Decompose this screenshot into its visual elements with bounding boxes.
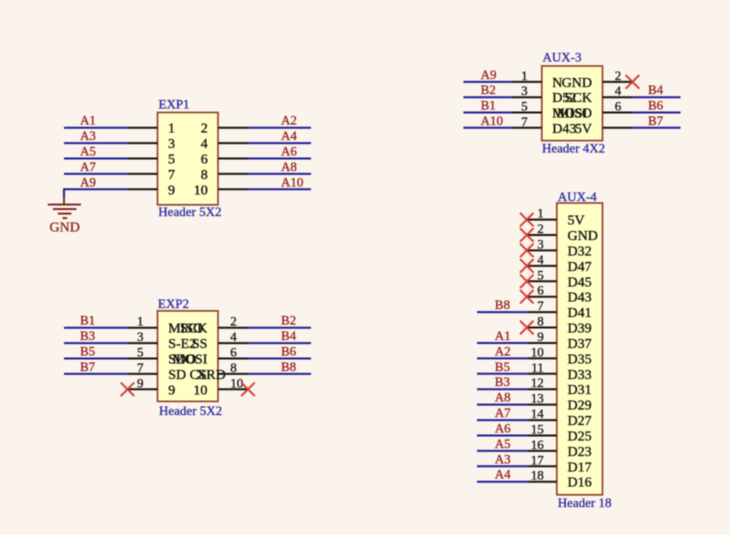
- net label A7: [495, 405, 511, 420]
- svg-text:D31: D31: [568, 383, 592, 398]
- AUX-4 pin 4: [527, 260, 592, 275]
- svg-text:A7: A7: [495, 405, 511, 420]
- svg-text:3: 3: [168, 137, 175, 152]
- wire net A2: [477, 357, 527, 359]
- svg-text:A6: A6: [495, 421, 511, 436]
- wire net B6: [248, 358, 311, 360]
- svg-text:B5: B5: [80, 344, 95, 359]
- svg-text:A5: A5: [495, 436, 511, 451]
- EXP1 pin 4: [201, 137, 248, 152]
- wire net B4: [633, 96, 681, 98]
- no-ERC marker AUX-4 pin 6: [520, 290, 534, 304]
- EXP2 pin 9 number: [137, 375, 144, 390]
- svg-text:MOSI: MOSI: [172, 353, 207, 368]
- svg-text:D39: D39: [568, 322, 592, 337]
- svg-text:3: 3: [137, 329, 144, 344]
- AUX-4 pin 10 number: [531, 344, 544, 359]
- svg-text:1: 1: [521, 68, 528, 83]
- svg-text:A9: A9: [80, 174, 96, 189]
- svg-text:6: 6: [230, 345, 237, 360]
- svg-text:10: 10: [194, 183, 208, 198]
- net label B6: [648, 98, 664, 113]
- wire net A7: [64, 173, 128, 175]
- AUX-4 pin 13: [527, 399, 592, 414]
- net label B4: [281, 328, 297, 343]
- net label A3: [80, 128, 96, 143]
- svg-text:A8: A8: [281, 159, 297, 174]
- AUX-3 pin 7 number: [521, 114, 528, 129]
- wire net B4: [248, 342, 311, 344]
- svg-text:AUX-3: AUX-3: [543, 50, 582, 65]
- wire net B5: [477, 373, 527, 375]
- wire net B6: [633, 112, 681, 114]
- svg-text:AUX-4: AUX-4: [558, 189, 597, 204]
- no-ERC marker EXP2 pin 9: [121, 383, 135, 397]
- no-ERC marker AUX-4 pin 4: [520, 259, 534, 273]
- svg-text:5: 5: [168, 153, 175, 168]
- svg-text:B8: B8: [281, 359, 296, 374]
- svg-text:D17: D17: [568, 460, 592, 475]
- svg-text:6: 6: [201, 153, 208, 168]
- wire net A9 to GND: [64, 188, 128, 198]
- GND net label: [50, 221, 80, 236]
- svg-text:1: 1: [137, 314, 144, 329]
- svg-text:Header 5X2: Header 5X2: [159, 403, 222, 418]
- svg-text:A10: A10: [481, 113, 503, 128]
- AUX-4 pin 12 number: [531, 375, 544, 390]
- svg-text:Header 5X2: Header 5X2: [158, 204, 221, 219]
- svg-text:A6: A6: [281, 144, 297, 159]
- AUX-4 pin 8 number: [537, 314, 544, 329]
- EXP1 pin 9: [128, 183, 176, 198]
- AUX-4 pin 14 number: [531, 406, 545, 421]
- wire net A5: [64, 158, 128, 160]
- AUX-3 pin 5 number: [521, 99, 528, 114]
- AUX-3 pin 6 number: [615, 99, 622, 114]
- AUX-4 pin 16: [527, 445, 592, 460]
- EXP2 pin 4 number: [230, 329, 237, 344]
- EXP2 pin 10 number: [230, 375, 243, 390]
- net label B8: [495, 297, 510, 312]
- svg-text:SS: SS: [192, 337, 208, 352]
- AUX-4 pin 2 number: [537, 221, 544, 236]
- AUX-3 pin 2 number: [615, 68, 622, 83]
- AUX-3 pin 1 number: [521, 68, 528, 83]
- net label B7: [80, 359, 96, 374]
- net label A8: [495, 390, 511, 405]
- wire net A1: [477, 342, 527, 344]
- EXP2 pin 5 number: [137, 345, 144, 360]
- AUX-4 pin 18 number: [531, 468, 544, 483]
- svg-text:B4: B4: [281, 328, 297, 343]
- AUX-4 pin 7 number: [537, 298, 544, 313]
- EXP2 pin 4: [192, 337, 248, 352]
- wire net B8: [248, 373, 311, 375]
- no-ERC marker EXP2 pin 10: [241, 383, 255, 397]
- EXP2 pin 8: [218, 373, 248, 375]
- AUX-4 pin 14: [527, 414, 592, 429]
- EXP2 pin 2 number: [230, 314, 237, 329]
- AUX-4 pin 11 number: [531, 360, 544, 375]
- net label A2: [281, 113, 297, 128]
- svg-text:3: 3: [521, 83, 528, 98]
- svg-text:A1: A1: [495, 328, 511, 343]
- AUX-4 pin 5 number: [537, 267, 544, 282]
- net label B2: [481, 82, 496, 97]
- EXP1 pin 2: [201, 122, 248, 137]
- wire net A4: [248, 142, 311, 144]
- svg-text:A2: A2: [281, 113, 297, 128]
- power port GND symbol: [48, 197, 81, 218]
- svg-text:GND: GND: [568, 229, 598, 244]
- EXP2 pin 1: [128, 322, 204, 337]
- value label Header 4X2: [542, 140, 605, 155]
- svg-text:D47: D47: [568, 260, 592, 275]
- svg-text:B1: B1: [481, 98, 496, 113]
- net label A7: [80, 159, 96, 174]
- svg-text:B3: B3: [80, 328, 95, 343]
- svg-text:13: 13: [531, 391, 544, 406]
- AUX-4 pin 6 number: [537, 283, 544, 298]
- svg-text:3: 3: [537, 236, 544, 251]
- svg-text:5V: 5V: [575, 122, 592, 137]
- svg-text:6: 6: [615, 99, 622, 114]
- EXP2 pin 10: [193, 383, 248, 398]
- net label B2: [281, 313, 296, 328]
- AUX-4 pin 3 number: [537, 236, 544, 251]
- svg-text:11: 11: [531, 360, 544, 375]
- svg-text:XRD: XRD: [196, 368, 226, 383]
- wire net B2: [248, 327, 311, 329]
- svg-text:SCK: SCK: [565, 91, 592, 106]
- svg-text:7: 7: [521, 114, 528, 129]
- svg-text:6: 6: [537, 283, 544, 298]
- net label B7: [648, 113, 664, 128]
- svg-text:A5: A5: [80, 144, 96, 159]
- AUX-3 pin 5: [512, 107, 588, 122]
- net label A1: [80, 113, 96, 128]
- svg-text:1: 1: [537, 206, 544, 221]
- EXP2 pin 7: [128, 368, 207, 383]
- connector AUX-3 body: [542, 66, 603, 141]
- no-ERC marker AUX-4 pin 5: [520, 275, 534, 289]
- svg-text:8: 8: [201, 168, 208, 183]
- wire net B2: [463, 96, 511, 98]
- AUX-4 pin 12: [527, 383, 592, 398]
- wire net A8: [477, 404, 527, 406]
- EXP2 pin 3 number: [137, 329, 144, 344]
- AUX-3 pin 3 number: [521, 83, 528, 98]
- svg-text:B6: B6: [648, 98, 664, 113]
- svg-text:B1: B1: [80, 313, 95, 328]
- svg-text:B7: B7: [80, 359, 96, 374]
- EXP1 pin 8: [201, 168, 248, 183]
- AUX-4 pin 16 number: [531, 437, 545, 452]
- AUX-3 pin 6: [557, 107, 633, 122]
- svg-text:4: 4: [201, 137, 208, 152]
- svg-text:D32: D32: [568, 244, 592, 259]
- net label B5: [80, 344, 95, 359]
- svg-text:9: 9: [168, 183, 175, 198]
- net label A2: [495, 343, 511, 358]
- EXP1 pin 6: [201, 153, 248, 168]
- EXP2 pin 6: [172, 353, 248, 368]
- AUX-4 pin 11: [527, 368, 592, 383]
- svg-text:15: 15: [531, 422, 544, 437]
- net label A9: [80, 174, 96, 189]
- svg-text:10: 10: [193, 383, 207, 398]
- EXP2 pin 2: [180, 322, 248, 337]
- AUX-3 pin 3: [512, 91, 577, 106]
- AUX-4 pin 1 number: [537, 206, 544, 221]
- designator EXP2: [158, 296, 189, 311]
- no-ERC marker AUX-4 pin 1: [520, 213, 534, 227]
- net label B8: [281, 359, 296, 374]
- svg-text:GND: GND: [50, 221, 80, 236]
- value label Header 18: [558, 495, 612, 510]
- svg-text:A1: A1: [80, 113, 96, 128]
- wire net B8: [477, 311, 527, 313]
- AUX-4 pin 15 number: [531, 422, 544, 437]
- svg-text:EXP2: EXP2: [158, 296, 189, 311]
- net label B3: [80, 328, 95, 343]
- svg-text:B2: B2: [481, 82, 496, 97]
- svg-text:2: 2: [201, 122, 208, 137]
- AUX-4 pin 4 number: [537, 252, 544, 267]
- svg-text:B2: B2: [281, 313, 296, 328]
- AUX-4 pin 5: [527, 275, 592, 290]
- AUX-4 pin 15: [527, 430, 592, 445]
- net label B6: [281, 344, 297, 359]
- svg-text:1: 1: [168, 122, 175, 137]
- svg-text:5: 5: [537, 267, 544, 282]
- svg-text:7: 7: [537, 298, 544, 313]
- svg-text:17: 17: [531, 452, 545, 467]
- svg-text:B3: B3: [495, 374, 510, 389]
- wire net A10: [463, 127, 511, 129]
- wire net A3: [477, 465, 527, 467]
- svg-text:2: 2: [230, 314, 237, 329]
- wire net B7: [64, 373, 128, 375]
- value label Header 5X2 (EXP1): [158, 204, 221, 219]
- svg-text:A3: A3: [495, 451, 511, 466]
- svg-text:4: 4: [615, 83, 622, 98]
- svg-text:B8: B8: [495, 297, 510, 312]
- EXP1 pin 3: [128, 137, 176, 152]
- AUX-3 pin 7: [512, 122, 577, 137]
- net label A5: [495, 436, 511, 451]
- AUX-3 pin 2: [562, 76, 633, 91]
- no-ERC marker AUX-4 pin 8: [520, 321, 534, 335]
- connector AUX-4 body: [557, 203, 603, 495]
- svg-text:D37: D37: [568, 337, 592, 352]
- net label A6: [281, 144, 297, 159]
- net label A8: [281, 159, 297, 174]
- connector EXP1 body: [158, 113, 219, 205]
- svg-text:A2: A2: [495, 343, 511, 358]
- svg-text:A3: A3: [80, 128, 96, 143]
- svg-text:A10: A10: [281, 174, 303, 189]
- net label B1: [481, 98, 496, 113]
- AUX-3 pin 4 number: [615, 83, 622, 98]
- svg-text:18: 18: [531, 468, 544, 483]
- svg-text:8: 8: [230, 360, 237, 375]
- svg-text:9: 9: [537, 329, 544, 344]
- svg-text:5V: 5V: [568, 214, 585, 229]
- svg-text:7: 7: [137, 360, 144, 375]
- wire net A8: [248, 173, 311, 175]
- svg-text:5: 5: [521, 99, 528, 114]
- svg-text:D16: D16: [568, 476, 592, 491]
- AUX-4 pin 9 number: [537, 329, 544, 344]
- AUX-3 pin 4: [565, 91, 633, 106]
- EXP1 pin 7: [128, 168, 176, 183]
- svg-text:D23: D23: [568, 445, 592, 460]
- wire net A7: [477, 419, 527, 421]
- svg-text:Header 18: Header 18: [558, 495, 612, 510]
- AUX-4 pin 6: [527, 291, 592, 306]
- net label B1: [80, 313, 95, 328]
- net label A9: [481, 67, 497, 82]
- EXP2 pin 3: [128, 337, 197, 352]
- svg-text:D43: D43: [568, 291, 592, 306]
- net label A4: [495, 467, 511, 482]
- net label A3: [495, 451, 511, 466]
- AUX-3 pin 8: [575, 122, 633, 137]
- svg-text:4: 4: [230, 329, 237, 344]
- wire net A4: [477, 481, 527, 483]
- wire net A1: [64, 127, 128, 129]
- AUX-4 pin 9: [527, 337, 592, 352]
- AUX-4 pin 10: [527, 352, 592, 367]
- AUX-4 pin 1: [527, 214, 585, 229]
- net label A4: [281, 128, 297, 143]
- EXP1 pin 5: [128, 153, 176, 168]
- AUX-4 pin 7: [527, 306, 592, 321]
- svg-text:B6: B6: [281, 344, 297, 359]
- net label A1: [495, 328, 511, 343]
- designator AUX-3: [543, 50, 582, 65]
- wire net A5: [477, 450, 527, 452]
- net label A10: [281, 174, 303, 189]
- EXP2 pin 8 number: [230, 360, 237, 375]
- svg-text:A7: A7: [80, 159, 96, 174]
- svg-text:5: 5: [137, 345, 144, 360]
- wire net B1: [64, 327, 128, 329]
- svg-text:B5: B5: [495, 359, 510, 374]
- svg-text:D41: D41: [568, 306, 592, 321]
- svg-text:D35: D35: [568, 352, 592, 367]
- svg-text:EXP1: EXP1: [159, 97, 190, 112]
- svg-text:A4: A4: [495, 467, 511, 482]
- connector EXP2 body: [158, 311, 219, 402]
- svg-text:2: 2: [537, 221, 544, 236]
- wire net A6: [248, 158, 311, 160]
- EXP2 pin 8 name overflow XRD: [196, 368, 226, 383]
- svg-text:7: 7: [168, 168, 175, 183]
- no-ERC marker AUX-4 pin 3: [520, 244, 534, 258]
- svg-text:10: 10: [531, 344, 544, 359]
- wire net B3: [64, 342, 128, 344]
- svg-text:D27: D27: [568, 414, 592, 429]
- svg-text:4: 4: [537, 252, 544, 267]
- svg-text:2: 2: [615, 68, 622, 83]
- no-ERC marker AUX-3 pin 2: [626, 75, 640, 89]
- svg-text:D25: D25: [568, 430, 592, 445]
- value label Header 5X2 (EXP2): [159, 403, 222, 418]
- svg-text:D43: D43: [552, 122, 576, 137]
- AUX-4 pin 2: [527, 229, 598, 244]
- wire net A6: [477, 435, 527, 437]
- svg-text:8: 8: [537, 314, 544, 329]
- svg-text:12: 12: [531, 375, 544, 390]
- wire net A3: [64, 142, 128, 144]
- designator AUX-4: [558, 189, 597, 204]
- svg-text:D45: D45: [568, 275, 592, 290]
- AUX-3 pin 1: [512, 76, 563, 91]
- net label B3: [495, 374, 510, 389]
- wire net B7: [633, 127, 681, 129]
- wire net A9: [463, 81, 511, 83]
- wire net B3: [477, 388, 527, 390]
- designator EXP1: [159, 97, 190, 112]
- svg-text:SCK: SCK: [180, 322, 207, 337]
- svg-text:9: 9: [137, 375, 144, 390]
- net label A5: [80, 144, 96, 159]
- wire net A2: [248, 127, 311, 129]
- AUX-4 pin 13 number: [531, 391, 544, 406]
- net label B5: [495, 359, 510, 374]
- AUX-4 pin 3: [527, 244, 592, 259]
- svg-text:MISO: MISO: [557, 107, 592, 122]
- svg-text:16: 16: [531, 437, 545, 452]
- net label B4: [648, 82, 664, 97]
- EXP2 pin 6 number: [230, 345, 237, 360]
- AUX-4 pin 8: [527, 322, 592, 337]
- no-ERC marker AUX-4 pin 2: [520, 228, 534, 242]
- AUX-4 pin 17 number: [531, 452, 545, 467]
- wire net B5: [64, 358, 128, 360]
- EXP2 pin 9: [128, 383, 176, 398]
- svg-text:A4: A4: [281, 128, 297, 143]
- EXP2 pin 1 number: [137, 314, 144, 329]
- AUX-4 pin 18: [527, 476, 592, 491]
- wire net B1: [463, 112, 511, 114]
- svg-text:A9: A9: [481, 67, 497, 82]
- EXP1 pin 10: [194, 183, 248, 198]
- AUX-4 pin 17: [527, 460, 592, 475]
- svg-text:D33: D33: [568, 368, 592, 383]
- svg-text:D29: D29: [568, 399, 592, 414]
- net label A6: [495, 421, 511, 436]
- svg-text:B7: B7: [648, 113, 664, 128]
- net label A10: [481, 113, 503, 128]
- svg-text:9: 9: [168, 383, 175, 398]
- EXP2 pin 5: [128, 353, 197, 368]
- EXP1 pin 1: [128, 122, 176, 137]
- svg-text:GND: GND: [562, 76, 592, 91]
- svg-text:A8: A8: [495, 390, 511, 405]
- wire net A10: [248, 188, 311, 190]
- svg-text:14: 14: [531, 406, 545, 421]
- svg-text:Header 4X2: Header 4X2: [542, 140, 605, 155]
- svg-text:B4: B4: [648, 82, 664, 97]
- EXP2 pin 7 number: [137, 360, 144, 375]
